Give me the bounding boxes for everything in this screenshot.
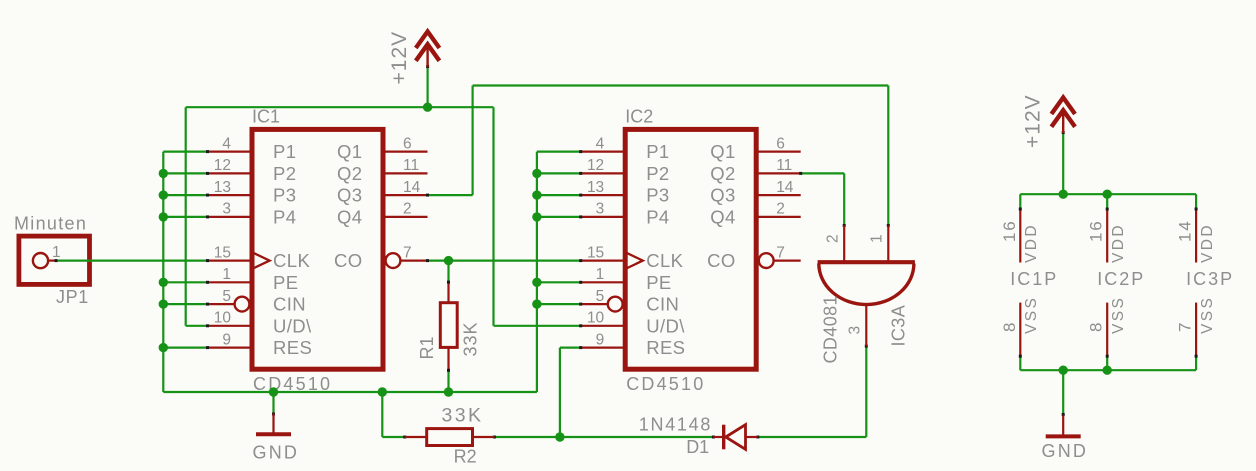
wire Q3 riser up	[472, 86, 474, 196]
svg-text:CD4510: CD4510	[626, 374, 705, 394]
svg-text:P4: P4	[273, 207, 296, 228]
junction dot +12V stem	[423, 103, 432, 112]
wire IC1 Q3 to riser	[428, 194, 473, 196]
wire IC2 RES to drop	[560, 347, 581, 349]
svg-text:CLK: CLK	[646, 250, 683, 271]
wire IC2 Q2 to gate pin2	[801, 172, 845, 174]
svg-text:4: 4	[222, 135, 231, 152]
svg-text:GND: GND	[253, 443, 300, 463]
svg-text:VDD: VDD	[1023, 223, 1040, 263]
junction dot RES2	[555, 432, 564, 441]
svg-text:15: 15	[587, 244, 604, 261]
wire JP1 pin1 to IC1 CLK	[56, 260, 208, 262]
IC2 CD4510 counter	[581, 107, 801, 395]
wire IC1 P3 stub	[163, 194, 207, 196]
svg-text:IC3A: IC3A	[889, 305, 909, 347]
wire Q3 net top horizontal to gate pin1	[473, 84, 889, 86]
svg-text:CO: CO	[334, 250, 363, 271]
svg-text:P1: P1	[273, 141, 296, 162]
wire IC2 P2 stub	[537, 172, 581, 174]
svg-text:P1: P1	[646, 141, 669, 162]
svg-text:1: 1	[222, 266, 231, 283]
svg-text:8: 8	[1000, 321, 1019, 332]
wire +12V-2 stem	[1062, 132, 1064, 194]
svg-text:GND: GND	[1042, 441, 1089, 461]
svg-text:Q3: Q3	[710, 185, 735, 206]
svg-text:VDD: VDD	[1110, 223, 1127, 263]
svg-text:R2: R2	[454, 446, 477, 466]
supply +12V symbol left	[388, 31, 440, 85]
svg-text:2: 2	[824, 234, 841, 243]
svg-text:4: 4	[596, 135, 605, 152]
svg-text:Q3: Q3	[337, 185, 362, 206]
wire top +12V net horizontal	[186, 106, 494, 108]
svg-text:5: 5	[222, 288, 231, 305]
svg-text:16: 16	[1000, 219, 1019, 242]
wire right VSS rail	[1020, 369, 1196, 371]
svg-text:VSS: VSS	[1199, 296, 1216, 334]
svg-text:8: 8	[1087, 321, 1106, 332]
svg-text:13: 13	[214, 179, 231, 196]
svg-text:10: 10	[214, 310, 232, 327]
wire D1 to gate output	[758, 436, 867, 438]
junction dot R1 bottom	[444, 387, 453, 396]
svg-text:P3: P3	[646, 185, 669, 206]
svg-text:13: 13	[587, 179, 604, 196]
power pins IC2P	[1087, 194, 1146, 370]
svg-text:9: 9	[596, 331, 605, 348]
svg-text:14: 14	[1176, 219, 1195, 242]
svg-text:P3: P3	[273, 185, 296, 206]
wire IC1 P4 stub	[163, 216, 207, 218]
wire gate pin2 drop	[843, 173, 845, 225]
svg-text:P2: P2	[646, 163, 669, 184]
wire IC1 P1 stub	[163, 151, 207, 153]
wire R2 left	[382, 436, 405, 438]
svg-text:JP1: JP1	[56, 287, 89, 307]
svg-text:1N4148: 1N4148	[639, 414, 712, 434]
svg-text:10: 10	[587, 310, 605, 327]
power pins IC3P	[1176, 194, 1235, 370]
svg-text:VSS: VSS	[1110, 296, 1127, 334]
wire bottom GND net	[163, 391, 537, 393]
svg-text:+12V: +12V	[1021, 94, 1044, 148]
junction dot GND symbol stem	[269, 387, 278, 396]
wire gate pin1 drop	[887, 86, 889, 226]
wire R2 right to RES junction	[494, 436, 560, 438]
svg-text:14: 14	[776, 179, 794, 196]
wire IC2 P4 stub	[537, 216, 581, 218]
svg-text:11: 11	[776, 157, 792, 174]
wire +12V bus to IC1 U/D	[185, 107, 187, 326]
wire +12V bus to IC2 U/D	[492, 107, 494, 326]
junction dot CO/R1	[444, 256, 453, 265]
junction dot R2 riser	[378, 387, 387, 396]
svg-text:3: 3	[222, 201, 231, 218]
svg-text:IC2: IC2	[625, 107, 653, 127]
svg-text:U/D\: U/D\	[646, 315, 685, 336]
wire R1 bottom	[447, 370, 449, 392]
AND gate IC3A CD4081	[818, 226, 915, 364]
wire IC2 P bus vertical x537	[536, 152, 538, 392]
svg-text:CLK: CLK	[273, 250, 310, 271]
svg-text:RES: RES	[273, 337, 312, 358]
wire IC1 CIN stub	[163, 303, 207, 305]
IC1 CD4510 counter	[208, 107, 428, 395]
svg-text:IC1: IC1	[252, 107, 280, 127]
svg-text:Q4: Q4	[337, 207, 362, 228]
svg-text:CD4081: CD4081	[820, 295, 840, 363]
svg-text:Q2: Q2	[710, 163, 735, 184]
svg-text:6: 6	[403, 135, 412, 152]
svg-text:3: 3	[596, 201, 605, 218]
wire IC2 P3 stub	[537, 194, 581, 196]
connector JP1 (Minuten)	[14, 214, 90, 308]
svg-text:IC3P: IC3P	[1186, 269, 1234, 289]
junction dots IC2 P bus	[532, 169, 541, 178]
svg-text:Q4: Q4	[710, 207, 735, 228]
svg-text:11: 11	[403, 157, 419, 174]
resistor R2 33K	[405, 405, 495, 467]
wire IC2 P1 stub	[537, 151, 581, 153]
ground GND symbol left	[253, 413, 300, 462]
wire R1 top	[447, 261, 449, 283]
wire +12V-1 stem	[427, 66, 429, 107]
junction dots VDD rail	[1059, 190, 1068, 199]
svg-text:9: 9	[222, 331, 231, 348]
wire gate output drop	[865, 346, 867, 437]
wire IC1 PE stub	[163, 281, 207, 283]
svg-text:CIN: CIN	[273, 294, 306, 315]
svg-text:PE: PE	[646, 272, 671, 293]
svg-text:Q2: Q2	[337, 163, 362, 184]
svg-text:15: 15	[214, 244, 231, 261]
svg-text:PE: PE	[273, 272, 298, 293]
svg-text:33K: 33K	[460, 321, 480, 356]
svg-text:14: 14	[403, 179, 421, 196]
svg-text:7: 7	[403, 244, 412, 261]
svg-text:3: 3	[846, 326, 863, 335]
svg-text:CO: CO	[707, 250, 736, 271]
svg-text:Minuten: Minuten	[14, 214, 87, 234]
svg-text:R1: R1	[417, 336, 437, 359]
wire GND2 stem	[1062, 370, 1064, 414]
svg-text:U/D\: U/D\	[273, 315, 312, 336]
wire IC1 RES stub	[163, 347, 207, 349]
svg-text:12: 12	[587, 157, 604, 174]
svg-text:Q1: Q1	[337, 141, 362, 162]
svg-text:P2: P2	[273, 163, 296, 184]
svg-text:P4: P4	[646, 207, 669, 228]
wire IC2 CIN stub	[537, 303, 581, 305]
svg-text:7: 7	[776, 244, 785, 261]
supply +12V symbol right	[1021, 94, 1075, 148]
svg-text:IC2P: IC2P	[1097, 269, 1145, 289]
svg-text:VSS: VSS	[1023, 296, 1040, 334]
junction dots IC1 gnd bus	[159, 169, 168, 178]
svg-text:1: 1	[596, 266, 605, 283]
wire RES2 drop	[559, 348, 561, 437]
wire GND1 stem	[272, 392, 274, 414]
wire IC1 P2 stub	[163, 172, 207, 174]
junction dots VSS rail	[1059, 366, 1068, 375]
wire IC1 GND bus vertical x163	[162, 152, 164, 392]
svg-text:VDD: VDD	[1199, 223, 1216, 263]
svg-text:12: 12	[214, 157, 231, 174]
wire right VDD rail	[1020, 193, 1196, 195]
svg-text:7: 7	[1176, 321, 1195, 332]
power pins IC1P	[1000, 194, 1059, 370]
svg-text:6: 6	[776, 135, 785, 152]
resistor R1 33K	[417, 281, 480, 372]
svg-text:CIN: CIN	[646, 294, 679, 315]
wire IC1 CO to IC2 CLK	[428, 260, 581, 262]
svg-text:16: 16	[1087, 219, 1106, 242]
svg-text:Q1: Q1	[710, 141, 735, 162]
svg-text:2: 2	[776, 201, 785, 218]
diode D1 1N4148	[639, 414, 758, 457]
svg-text:RES: RES	[646, 337, 685, 358]
svg-text:1: 1	[52, 244, 61, 261]
wire R2 riser	[381, 392, 383, 437]
svg-text:IC1P: IC1P	[1010, 269, 1058, 289]
ground GND symbol right	[1042, 415, 1089, 461]
svg-text:1: 1	[868, 234, 885, 243]
svg-text:33K: 33K	[442, 405, 484, 427]
svg-text:2: 2	[403, 201, 412, 218]
svg-text:5: 5	[596, 288, 605, 305]
wire IC2 PE stub	[537, 281, 581, 283]
wire RES2 junction to D1	[560, 436, 714, 438]
svg-text:D1: D1	[686, 437, 709, 457]
svg-text:+12V: +12V	[388, 31, 411, 85]
